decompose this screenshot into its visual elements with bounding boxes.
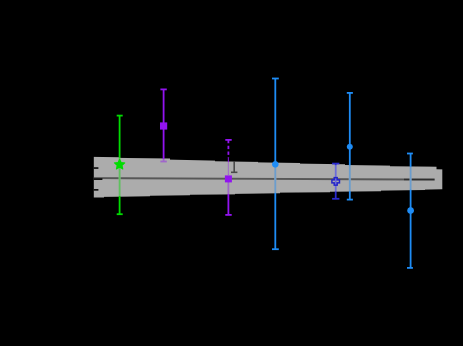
wire wash purple2 lower bbox=[227, 182, 230, 194]
wire wash blue1 bbox=[274, 163, 277, 193]
axis minor tick (black, over band) bbox=[94, 167, 99, 169]
wire wash blue3 bbox=[409, 167, 412, 190]
blue errorbar 1 bbox=[272, 79, 279, 250]
magenta square marker 1 bbox=[160, 122, 167, 129]
blue circle marker 1 bbox=[272, 161, 279, 168]
confidence band bbox=[94, 157, 443, 198]
green star marker bbox=[114, 159, 124, 169]
darker right end of fit line bbox=[404, 178, 435, 180]
dark errorbar over band bbox=[231, 161, 237, 172]
cross-marker errorbar segment over band bbox=[335, 165, 337, 191]
wire wash purple2 upper bbox=[227, 162, 230, 175]
blue errorbar 3 bbox=[407, 154, 413, 268]
wire wash magenta1 vertical bbox=[162, 159, 165, 160]
wire wash green bbox=[118, 158, 121, 196]
axis major tick (black, over band) bbox=[94, 178, 103, 180]
blue circle marker 3 bbox=[407, 207, 414, 214]
blue circle marker 2 bbox=[347, 144, 353, 150]
cross-marker errorbar bbox=[332, 164, 339, 199]
purple errorbar 2 (dashed upper part) bbox=[225, 140, 231, 215]
blue errorbar 2 bbox=[347, 93, 353, 200]
axis minor tick (black, over band) bbox=[94, 189, 99, 191]
wire wash magenta1 cap bbox=[160, 160, 168, 163]
central fit line bbox=[94, 178, 435, 180]
band wash over errorbar segments bbox=[120, 158, 411, 196]
magenta errorbar 1 bbox=[160, 89, 166, 161]
open plus marker bbox=[332, 178, 340, 186]
purple square marker 2 bbox=[225, 175, 232, 182]
green errorbar bbox=[117, 116, 123, 215]
wire wash blue2 bbox=[348, 165, 351, 191]
